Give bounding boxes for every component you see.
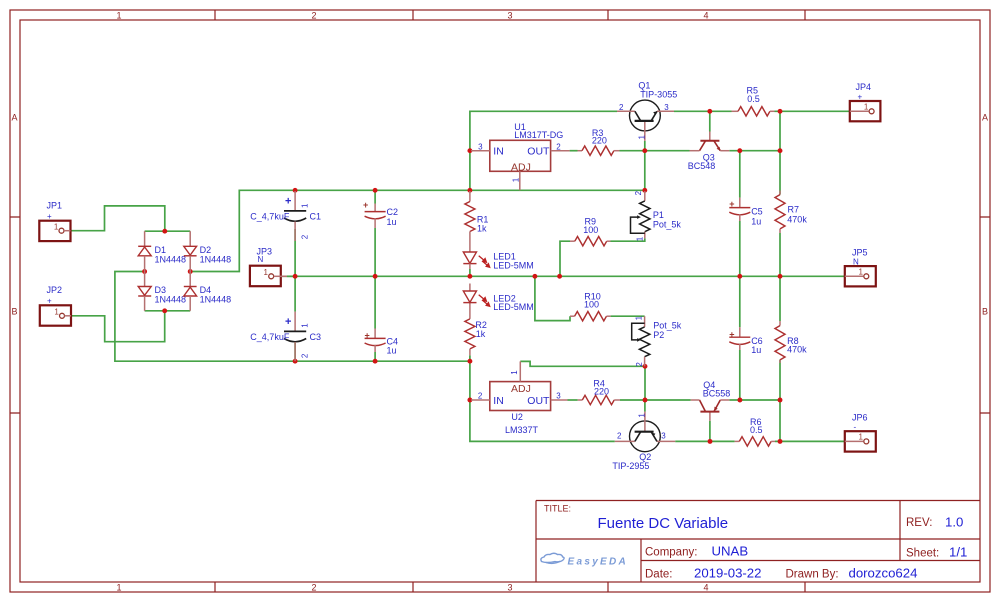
- svg-text:EasyEDA: EasyEDA: [568, 557, 629, 568]
- junction Q3 rail right column: [778, 148, 783, 153]
- svg-text:JP5: JP5: [852, 248, 868, 258]
- svg-text:TIP-3055: TIP-3055: [640, 90, 677, 100]
- svg-text:Sheet:: Sheet:: [906, 548, 939, 560]
- svg-text:R7: R7: [788, 205, 800, 215]
- transistor Q4 BC558: [691, 380, 731, 421]
- svg-text:2019-03-22: 2019-03-22: [694, 566, 761, 581]
- wire C6 top from mid rail: [739, 276, 741, 327]
- svg-text:+: +: [47, 297, 52, 306]
- junction mid rail LED column: [467, 274, 472, 279]
- junction R8 bottom: [778, 398, 783, 403]
- op-amp U1 LM317T-DG: [471, 122, 570, 191]
- svg-text:1.0: 1.0: [945, 515, 963, 530]
- svg-text:LM317T-DG: LM317T-DG: [514, 130, 563, 140]
- junction R5 right: [778, 109, 783, 114]
- svg-text:ADJ: ADJ: [511, 383, 531, 395]
- transistor Q2 TIP-2955: [612, 412, 675, 471]
- wire Q3 base junction to R5: [710, 110, 732, 112]
- svg-text:LED-5MM: LED-5MM: [493, 302, 534, 312]
- svg-text:P2: P2: [653, 330, 664, 340]
- junction bridge right-mid: [188, 269, 193, 274]
- junction bottom rail U2 column: [467, 359, 472, 364]
- wire bridge bottom rail: [145, 310, 191, 312]
- junction U1 IN column top rail: [467, 188, 472, 193]
- wire R10 right to P2 top: [611, 315, 645, 317]
- frame column ticks bottom: [215, 582, 805, 592]
- svg-text:A: A: [982, 113, 988, 123]
- junction P1 top: [642, 188, 647, 193]
- wire JP3 pin to mid rail: [287, 275, 295, 277]
- potentiometer P1 Pot_5k: [631, 190, 682, 241]
- svg-text:-: -: [854, 423, 857, 432]
- svg-text:1N4448: 1N4448: [155, 254, 187, 264]
- wire C3 bottom to bottom rail: [294, 342, 296, 361]
- junction Q1 emitter: [642, 148, 647, 153]
- svg-text:1: 1: [864, 103, 869, 112]
- capacitor C3: [250, 312, 321, 362]
- svg-text:2: 2: [556, 142, 561, 151]
- transistor Q1 TIP-3055: [617, 80, 677, 140]
- svg-text:REV:: REV:: [906, 517, 932, 529]
- wire C2 bottom to mid rail: [374, 228, 376, 276]
- frame column ticks top: [215, 10, 805, 20]
- diode D4: [184, 272, 231, 311]
- resistor R5: [732, 86, 775, 116]
- resistor R3: [578, 128, 620, 155]
- wire bridge right-mid up to top rail: [190, 190, 645, 271]
- junction mid rail C1C3: [293, 274, 298, 279]
- wire left column U2 IN down and to Q2 base: [470, 400, 615, 441]
- svg-text:1N4448: 1N4448: [200, 254, 232, 264]
- wire C5 bottom to mid rail: [739, 221, 741, 276]
- wire Q4 base down to R6 rail: [709, 421, 711, 442]
- wire R5 right to JP4: [775, 110, 850, 112]
- svg-text:2: 2: [311, 583, 316, 593]
- svg-text:2: 2: [635, 362, 644, 367]
- wire bridge left-mid to bottom rail: [115, 272, 470, 362]
- svg-text:1k: 1k: [477, 224, 487, 234]
- svg-text:1: 1: [511, 177, 520, 182]
- svg-text:BC548: BC548: [688, 161, 716, 171]
- svg-text:Company:: Company:: [645, 547, 697, 559]
- svg-text:1N4448: 1N4448: [155, 294, 187, 304]
- wire C4 bottom to bottom rail: [374, 352, 376, 361]
- svg-text:2: 2: [300, 234, 309, 239]
- svg-text:4: 4: [703, 11, 708, 21]
- connector JP1: [39, 201, 70, 242]
- wire R9 branch from mid rail: [560, 241, 570, 276]
- wire C4 top from mid rail: [374, 276, 376, 328]
- junction Q4 base R6 rail: [708, 439, 713, 444]
- svg-text:+: +: [858, 93, 863, 102]
- svg-text:+: +: [363, 200, 368, 210]
- svg-text:N: N: [853, 258, 859, 267]
- svg-text:P1: P1: [653, 210, 664, 220]
- diode D2: [184, 231, 231, 271]
- wire R8 bottom to R4 rail: [779, 360, 781, 400]
- junction mid rail C5C6: [737, 274, 742, 279]
- wire Q3 emitter to C5 junction: [729, 150, 780, 152]
- svg-text:470k: 470k: [787, 214, 807, 224]
- svg-text:C5: C5: [751, 207, 763, 217]
- connector JP3: [250, 247, 287, 287]
- wire R9 right to P1 bottom: [611, 238, 645, 241]
- svg-text:3: 3: [507, 11, 512, 21]
- wire Q2 emitter up to R4 junction: [644, 400, 646, 412]
- wire C6 bottom to R4 rail: [739, 350, 741, 400]
- svg-text:2: 2: [619, 103, 624, 112]
- svg-text:+: +: [285, 196, 291, 208]
- junction C2 top rail: [373, 188, 378, 193]
- svg-text:2: 2: [478, 392, 483, 401]
- capacitor C1: [250, 191, 321, 241]
- svg-text:1: 1: [859, 268, 864, 277]
- diode D3: [138, 272, 186, 311]
- connector JP4: [850, 82, 881, 121]
- svg-text:1: 1: [637, 413, 646, 418]
- svg-text:1u: 1u: [387, 345, 397, 355]
- svg-text:1: 1: [116, 11, 121, 21]
- wire C3 top from mid rail: [294, 276, 296, 311]
- svg-text:1: 1: [859, 433, 864, 442]
- svg-text:3: 3: [507, 583, 512, 593]
- svg-text:N: N: [258, 255, 264, 264]
- svg-text:220: 220: [594, 387, 609, 397]
- svg-text:1: 1: [54, 308, 59, 317]
- svg-text:TITLE:: TITLE:: [544, 504, 571, 514]
- junction Q3 emitter C5: [737, 148, 742, 153]
- LED2: [463, 284, 534, 313]
- frame row ticks right: [980, 217, 990, 413]
- svg-text:TIP-2955: TIP-2955: [612, 461, 649, 471]
- wire left column R2 bottom to bottom rail: [469, 355, 471, 361]
- svg-text:+: +: [729, 199, 734, 209]
- resistor R1: [465, 191, 489, 252]
- svg-text:1u: 1u: [751, 217, 761, 227]
- wire C1 bottom to mid rail: [294, 229, 296, 276]
- svg-text:1u: 1u: [751, 345, 761, 355]
- junction C1 top rail: [293, 188, 298, 193]
- svg-text:1/1: 1/1: [949, 545, 967, 560]
- svg-text:Fuente DC Variable: Fuente DC Variable: [598, 515, 729, 532]
- svg-text:3: 3: [664, 103, 669, 112]
- svg-text:IN: IN: [493, 395, 504, 407]
- svg-text:A: A: [11, 113, 17, 123]
- svg-text:2: 2: [617, 432, 622, 441]
- svg-text:3: 3: [478, 142, 483, 151]
- junction Q4 right pin: [737, 398, 742, 403]
- svg-text:1: 1: [301, 323, 310, 328]
- LED1: [463, 252, 534, 271]
- svg-text:LED-5MM: LED-5MM: [493, 260, 534, 270]
- svg-text:+: +: [729, 330, 734, 340]
- wire R10 branch from mid rail: [535, 276, 570, 320]
- svg-text:1: 1: [264, 268, 269, 277]
- svg-text:1: 1: [54, 223, 59, 232]
- svg-text:1: 1: [301, 203, 310, 208]
- svg-text:1: 1: [636, 236, 645, 241]
- svg-text:2: 2: [300, 353, 309, 358]
- svg-text:2: 2: [634, 190, 643, 195]
- svg-text:1: 1: [638, 135, 647, 140]
- EasyEDA logo: [541, 553, 564, 563]
- connector JP2: [40, 285, 71, 326]
- svg-text:220: 220: [592, 135, 607, 145]
- wire R3 right to Q1 emitter junction: [570, 150, 578, 152]
- svg-text:+: +: [47, 212, 52, 221]
- wire C5 top from junction: [739, 151, 741, 198]
- svg-text:Drawn By:: Drawn By:: [786, 569, 839, 581]
- svg-text:Pot_5k: Pot_5k: [653, 220, 682, 230]
- svg-text:JP4: JP4: [856, 82, 872, 92]
- wire R8 top from mid rail: [779, 276, 781, 321]
- wire JP1 to bridge top: [71, 206, 165, 231]
- wire Q4 right pin to C6 junction: [729, 399, 740, 401]
- wire U2 OUT to R4: [568, 399, 578, 401]
- svg-text:ADJ: ADJ: [511, 162, 531, 174]
- wire U2 ADJ jog to P2 bottom junction: [520, 361, 645, 366]
- wire JP2 to bridge bottom: [71, 311, 165, 342]
- wire R6 right to JP6: [775, 440, 845, 442]
- svg-text:IN: IN: [493, 145, 504, 157]
- svg-text:LM337T: LM337T: [505, 425, 539, 435]
- wire P2 bottom junction to R4 junction: [644, 366, 646, 400]
- svg-text:0.5: 0.5: [750, 425, 763, 435]
- resistor R10: [570, 292, 611, 321]
- svg-text:BC558: BC558: [703, 388, 731, 398]
- wire left column LED1 bottom to mid rail: [469, 269, 471, 276]
- svg-text:C_4,7kuF: C_4,7kuF: [250, 211, 290, 221]
- svg-text:C2: C2: [387, 207, 399, 217]
- wire Q1 emitter down to junction: [644, 141, 646, 151]
- svg-text:C_4,7kuF: C_4,7kuF: [250, 332, 290, 342]
- svg-text:C3: C3: [310, 332, 322, 342]
- svg-text:dorozco624: dorozco624: [849, 566, 918, 581]
- title block outline: [536, 501, 980, 583]
- connector JP6: [845, 413, 876, 452]
- junction mid rail R7R8: [778, 274, 783, 279]
- svg-text:2: 2: [311, 11, 316, 21]
- wire Q2 collector to Q4 base junction: [675, 440, 710, 442]
- svg-text:B: B: [982, 307, 988, 317]
- junction bridge top: [162, 229, 167, 234]
- wire Q1 emitter junction to Q3 collector: [645, 150, 690, 152]
- svg-text:JP6: JP6: [852, 413, 868, 423]
- svg-text:0.5: 0.5: [747, 94, 760, 104]
- junction mid rail R10 branch: [532, 274, 537, 279]
- svg-text:C1: C1: [310, 211, 322, 221]
- svg-text:+: +: [285, 316, 291, 328]
- junction bridge bottom: [162, 308, 167, 313]
- capacitor C6: [729, 327, 762, 355]
- junction U2 IN: [467, 398, 472, 403]
- diode D1: [138, 231, 186, 271]
- svg-text:Date:: Date:: [645, 569, 673, 581]
- potentiometer P2 Pot_5k: [632, 315, 682, 366]
- svg-text:4: 4: [703, 583, 708, 593]
- frame row ticks left: [10, 217, 20, 413]
- wire left column U1 IN to ADJ rail: [469, 151, 471, 191]
- svg-text:OUT: OUT: [527, 145, 550, 157]
- svg-text:470k: 470k: [787, 344, 807, 354]
- wire C2 top from top rail: [374, 190, 376, 203]
- resistor R4: [578, 378, 620, 404]
- junction bottom rail C3: [293, 359, 298, 364]
- svg-text:3: 3: [661, 432, 666, 441]
- junction bridge left-mid: [142, 269, 147, 274]
- wire mid rail JP3 to JP5: [281, 275, 845, 277]
- svg-text:3: 3: [556, 392, 561, 401]
- svg-text:UNAB: UNAB: [712, 544, 749, 559]
- svg-text:+: +: [365, 331, 370, 341]
- junction R4 P2 Q2: [643, 398, 648, 403]
- svg-text:B: B: [11, 307, 17, 317]
- svg-text:1: 1: [634, 315, 643, 320]
- svg-text:OUT: OUT: [527, 395, 550, 407]
- svg-text:100: 100: [583, 225, 598, 235]
- op-amp U2 LM337T: [471, 361, 568, 434]
- resistor R6: [735, 417, 775, 446]
- svg-text:JP2: JP2: [47, 285, 63, 295]
- resistor R7: [775, 191, 807, 234]
- svg-text:1k: 1k: [476, 329, 486, 339]
- wire left column bottom rail to U2 IN: [469, 361, 471, 400]
- junction U1 IN: [467, 148, 472, 153]
- wire right column to R7: [779, 151, 781, 195]
- wire R8 column down to R6 rail: [779, 400, 781, 441]
- wire Q4 base junction to R6: [710, 440, 735, 442]
- svg-text:1: 1: [116, 583, 121, 593]
- svg-text:JP1: JP1: [47, 201, 63, 211]
- wire right column R5 to Q3 emitter rail: [779, 111, 781, 150]
- wire U1 ADJ rail to P1 top (via top rail y190): [644, 151, 646, 191]
- svg-text:100: 100: [584, 300, 599, 310]
- wire R7 bottom to mid rail: [779, 233, 781, 276]
- svg-text:U2: U2: [511, 412, 523, 422]
- svg-text:1N4448: 1N4448: [200, 294, 232, 304]
- junction Q3 base top rail: [707, 109, 712, 114]
- junction P2 bottom: [643, 364, 648, 369]
- capacitor C4: [365, 329, 399, 356]
- wire bridge top rail: [145, 230, 191, 232]
- wire R4 rail C6 to R8 columns: [740, 399, 780, 401]
- svg-text:1u: 1u: [387, 217, 397, 227]
- transistor Q3 BC548: [688, 132, 730, 171]
- wire R4 right to junction: [620, 399, 645, 401]
- connector JP5: [845, 248, 876, 287]
- wire Q1 collector to Q3 base junction: [674, 110, 710, 112]
- capacitor C5: [729, 198, 762, 227]
- capacitor C2: [363, 200, 398, 228]
- resistor R9: [570, 217, 611, 246]
- wire Q3 base vertical: [709, 111, 711, 131]
- junction mid rail C2C4: [373, 274, 378, 279]
- wire R4 junction to Q4 left pin: [645, 399, 691, 401]
- junction bottom rail C4: [373, 359, 378, 364]
- junction mid rail R9 branch: [557, 274, 562, 279]
- wire left column x470 top to Q1 base: [470, 111, 617, 150]
- resistor R2: [465, 303, 487, 356]
- junction R6 right: [778, 439, 783, 444]
- resistor R8: [775, 321, 807, 363]
- svg-text:1: 1: [510, 370, 519, 375]
